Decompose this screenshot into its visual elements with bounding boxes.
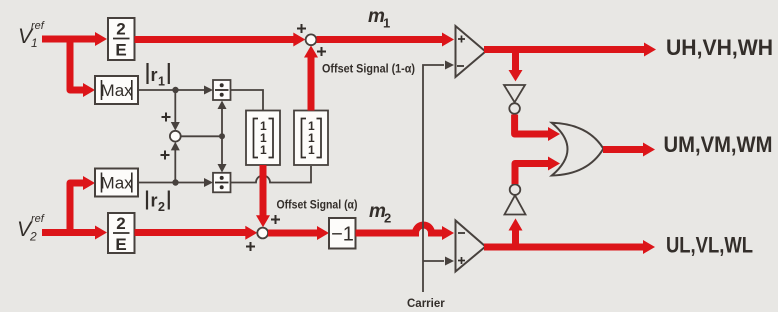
block Max1	[95, 76, 138, 104]
block K2 vector [1 1 1]	[294, 111, 328, 166]
block divider D1	[213, 80, 231, 100]
summing node S1 (m1)	[306, 34, 317, 45]
node V1ref label	[18, 20, 45, 50]
wire I1 output to OR gate upper input (red)	[515, 115, 560, 142]
svg-text:Max: Max	[101, 81, 134, 100]
label |r1|	[148, 63, 169, 89]
label plus sign S2 left-bottom	[246, 242, 255, 251]
svg-text:ref: ref	[31, 20, 45, 32]
node junction dot on S3 output	[219, 133, 225, 139]
wire Max1 output |r1| to divider D1	[138, 86, 213, 95]
svg-text:1: 1	[308, 143, 315, 157]
svg-text:r: r	[151, 65, 158, 85]
node junction dot on |r2| wire	[172, 179, 178, 185]
svg-text:r: r	[151, 191, 158, 211]
inverter I1 (NOT, pointing down)	[504, 85, 525, 114]
summing node S3 (|r1|+|r2|)	[170, 131, 181, 142]
comparator C2	[456, 221, 486, 272]
wire divisor tee up to D1 and down to D2 (double arrow)	[218, 101, 227, 173]
wire V2 branch up to Max2 (red)	[70, 176, 95, 236]
label plus sign S3 upper input	[162, 113, 171, 122]
wire S1 output m1 to comparator C1 (red)	[317, 33, 455, 47]
block Max2	[95, 169, 138, 197]
wire branch down to inverter I1 (red)	[509, 50, 523, 82]
svg-text:E: E	[115, 41, 126, 60]
svg-text:1: 1	[383, 16, 390, 31]
wire OR output to UM,VM,WM (red)	[603, 143, 655, 157]
label m2	[369, 201, 391, 226]
label |r2|	[147, 191, 169, 215]
svg-text:Offset Signal (α): Offset Signal (α)	[277, 200, 358, 212]
block N1 gain -1	[329, 218, 356, 249]
wire |r1| junction down to summing node S3	[171, 90, 180, 131]
svg-text:E: E	[115, 235, 126, 254]
svg-text:2: 2	[384, 211, 391, 226]
svg-text:1: 1	[31, 36, 38, 50]
wire S3 output to divisor tee	[181, 135, 222, 137]
label plus sign S3 lower input	[161, 151, 170, 160]
wire D2 output to vector block K2 (hop over red wire)	[231, 166, 312, 183]
svg-text:−1: −1	[331, 224, 354, 246]
wire V1 branch down to Max1 (red)	[70, 36, 95, 97]
wire V1ref to 2/E block (red)	[42, 32, 107, 46]
svg-text:UM,VM,WM: UM,VM,WM	[664, 132, 773, 157]
wire D1 output to vector block K1	[231, 90, 264, 110]
wire K1 output down to summing node S2 (red)	[256, 165, 270, 227]
block 2/E (upper)	[108, 18, 135, 60]
wire carrier vertical and branch to C1 minus input	[423, 61, 454, 293]
inverter I2 (NOT, pointing up)	[505, 184, 526, 214]
wire I2 output to OR gate lower input (red)	[515, 157, 560, 185]
svg-text:Offset Signal (1-α): Offset Signal (1-α)	[322, 64, 415, 76]
wire C2 branch up to inverter I2 (red)	[509, 218, 523, 247]
label plus sign S1 left-top	[297, 24, 306, 33]
block divider D2	[213, 173, 231, 193]
wire carrier branch to C2 plus input	[423, 257, 454, 266]
label plus sign S1 right-bottom	[317, 47, 326, 56]
comparator C1	[456, 26, 486, 77]
block 2/E (lower)	[108, 213, 135, 254]
svg-text:2: 2	[158, 200, 165, 214]
svg-text:ref: ref	[31, 213, 45, 225]
wire S2 output to block N1 (-1) (red)	[268, 226, 329, 240]
svg-text:UL,VL,WL: UL,VL,WL	[666, 233, 753, 258]
wire Max2 output |r2| to divider D2	[138, 178, 213, 187]
svg-text:Max: Max	[101, 174, 134, 193]
block K1 vector [1 1 1]	[246, 111, 280, 166]
wire 2/E to summing node S1 (red)	[135, 33, 306, 47]
node junction dot on |r1| wire	[172, 87, 178, 93]
svg-text:1: 1	[260, 143, 267, 157]
label m1	[368, 6, 390, 31]
wire |r2| junction up to summing node S3	[171, 142, 180, 183]
svg-text:2: 2	[116, 214, 125, 233]
summing node S2 (m2)	[257, 228, 268, 239]
wire N1 output m2 to comparator C2 (red, hop over carrier)	[356, 225, 455, 240]
svg-text:Carrier: Carrier	[407, 298, 445, 310]
wire 2/E lower to summing node S2 (red)	[135, 226, 258, 240]
wire C2 output to UL,VL,WL (red)	[484, 240, 655, 254]
wire K2 output up to summing node S1 (red)	[304, 46, 318, 111]
svg-text:2: 2	[29, 230, 37, 244]
svg-text:UH,VH,WH: UH,VH,WH	[666, 35, 773, 60]
gate OR U1	[552, 123, 604, 176]
svg-text:2: 2	[116, 20, 125, 39]
node V2ref label	[17, 213, 45, 244]
wire C1 output to UH,VH,WH (red)	[484, 43, 656, 57]
wire V2ref to 2/E lower (red)	[42, 226, 107, 240]
svg-text:1: 1	[158, 75, 165, 89]
label plus sign S2 right-top	[271, 215, 280, 224]
